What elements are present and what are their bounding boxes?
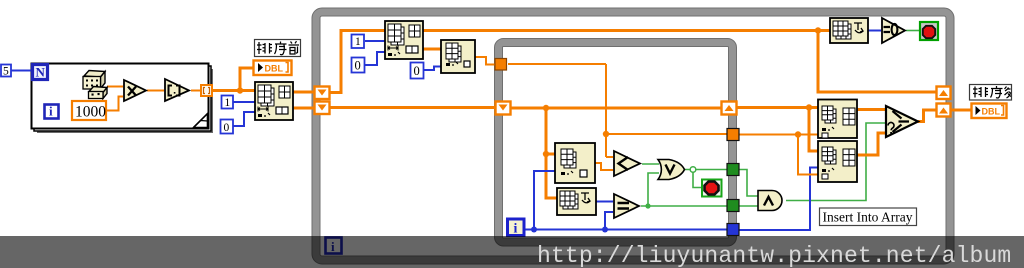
index array node inner (555, 143, 595, 183)
svg-text:1: 1 (225, 97, 231, 109)
svg-text:DBL: DBL (265, 64, 284, 74)
outer i terminal (326, 238, 342, 255)
index array node2 (441, 40, 475, 73)
svg-text:Insert Into Array: Insert Into Array (823, 210, 913, 225)
wire i up to index array (534, 171, 555, 230)
auto-index output tunnel of left loop (201, 85, 212, 96)
svg-text:0: 0 (355, 59, 361, 73)
watermark band (0, 236, 1024, 268)
junction ring green (690, 167, 696, 173)
wire element from tunnel down (508, 64, 727, 157)
round to nearest node (165, 79, 189, 101)
wire 5 to N (11, 70, 32, 72)
constant 0 (to node2) (411, 63, 424, 79)
wire branch down to insert2 element (798, 135, 818, 175)
stop button control (702, 180, 722, 197)
wire select out to up shiftreg2 (918, 110, 936, 122)
junction dot element (603, 131, 609, 137)
tunnel boolean 2 (green) (727, 200, 739, 212)
constant 1 (to subset) (222, 96, 234, 110)
outer for loop border (316, 12, 950, 260)
select node (886, 106, 918, 137)
wire array size to equal zero (868, 30, 881, 32)
constant 0 (to node1) (352, 58, 365, 73)
svg-text:1000: 1000 (75, 104, 106, 121)
junction dot (806, 104, 812, 110)
wire dice to multiply (107, 86, 123, 88)
wire tunnel1 to and (737, 170, 758, 197)
svg-text:N: N (36, 65, 46, 80)
wire node2 to inner tunnel (475, 57, 495, 65)
random number dice icon (83, 71, 107, 99)
tunnel element out (orange) (727, 129, 739, 141)
label Insert Into Array (820, 208, 917, 226)
svg-text:DBL: DBL (982, 107, 1001, 117)
constant 1000 (72, 101, 106, 121)
wire branch down to up shiftreg1 (818, 31, 936, 93)
wire subset out2 to shift reg (293, 107, 314, 110)
tunnel boolean 1 (green) (727, 164, 739, 176)
equal to zero node (882, 18, 905, 43)
array subset node (before indicator) (255, 82, 293, 120)
svg-text:0: 0 (414, 64, 420, 78)
DBL indicator after (972, 104, 1007, 119)
wire 0 to node1 (365, 52, 385, 65)
junction dots (543, 105, 549, 111)
wire inner up reg to insert1 array (737, 106, 818, 109)
wire round to tunnel (191, 90, 201, 92)
junction dots i rail (531, 227, 537, 233)
and gate (758, 191, 782, 211)
wire subset out1 to shift reg (293, 91, 314, 94)
N count terminal (33, 65, 48, 80)
constant 5 (1, 65, 11, 78)
wire equal branch up to or (648, 173, 659, 206)
wire less to or (642, 163, 659, 165)
wire top rail node1 to array size (423, 29, 830, 32)
wire branch down to stop button (693, 170, 701, 188)
left for-loop frame shadow (32, 64, 214, 134)
wire insert2 out to select f (857, 133, 886, 155)
multiply node (124, 80, 146, 101)
wire up shiftreg2 to DBL after (950, 109, 971, 112)
wire 1 to node1 (365, 40, 385, 42)
shift register down 1 (outer left) (315, 87, 330, 100)
wire index array out to less (595, 163, 613, 170)
junction dot green (645, 203, 650, 208)
array size node inner (557, 188, 596, 215)
insert into array node 2 (818, 141, 857, 182)
tunnel index (blue) (727, 224, 739, 236)
svg-text:5: 5 (3, 66, 9, 78)
constant 1 (to node1) (352, 35, 365, 49)
stop conditional terminal (920, 22, 938, 40)
wire equal zero to stop terminal (906, 30, 920, 32)
less than node (614, 151, 640, 176)
junction dot top rail (815, 27, 821, 33)
shift register down 2 (outer left) (315, 102, 330, 115)
wire 1000 to multiply (106, 97, 123, 111)
wire branch up to DBL indicator (240, 68, 253, 91)
wire or out to tunnel1 (683, 169, 727, 171)
wire branch down to insert2 array (809, 108, 818, 152)
wire insert1 out to select t (857, 108, 886, 111)
wire inner shiftreg across to up reg (511, 107, 721, 110)
label before sorting 排序前 (255, 40, 301, 57)
junction dot (237, 87, 243, 93)
svg-text:0: 0 (224, 122, 230, 134)
wire 0 to array subset (233, 112, 255, 126)
or gate (658, 160, 685, 180)
wire shiftreg1 up to top rail (330, 31, 385, 93)
svg-text:i: i (49, 104, 53, 119)
svg-text:http://liuyunantw.pixnet.net/a: http://liuyunantw.pixnet.net/album (537, 243, 1011, 268)
left frame dog-ear corner (194, 114, 208, 128)
DBL indicator before (254, 61, 292, 76)
wire node1 to node2 (423, 48, 441, 51)
wire loop tunnel to array subset node (212, 89, 255, 92)
inner i terminal (508, 219, 525, 237)
svg-text:i: i (514, 222, 518, 237)
array size node top right (830, 18, 868, 43)
junction dot element (795, 131, 801, 137)
shift register up 2 (outer right) (937, 104, 951, 117)
split array node1 (385, 21, 423, 59)
wire multiply to round (147, 90, 164, 92)
svg-text:1: 1 (355, 36, 361, 48)
wire element tunnel to insert1 element (737, 134, 818, 136)
inner shift register down (496, 102, 511, 115)
wire i rail (524, 229, 727, 231)
label after sorting 排序後 (970, 85, 1012, 101)
wire branch down to index array and array size (546, 108, 557, 198)
i terminal left loop (45, 104, 59, 119)
wire shiftreg2 to inner shift reg (330, 106, 495, 109)
wire i up to equal (605, 212, 613, 230)
shift register up 1 (outer right) (937, 87, 951, 100)
wire tunnel2 to and (737, 205, 758, 207)
inner while loop border (499, 43, 733, 243)
constant 0 (to subset) (221, 120, 234, 135)
tunnel into inner loop (element) (495, 59, 507, 71)
wire 0 to node2 (424, 67, 441, 71)
wire 1 to array subset (233, 101, 255, 103)
insert into array node 1 (818, 100, 857, 139)
inner shift register up (722, 102, 737, 115)
wire array size out to equal (596, 201, 613, 203)
left for-loop frame (32, 64, 209, 129)
wire blue tunnel to insert2 index (737, 168, 818, 231)
equal node (614, 194, 639, 218)
wire and out to select (786, 123, 886, 201)
wire equal out to tunnel2 (641, 205, 727, 207)
